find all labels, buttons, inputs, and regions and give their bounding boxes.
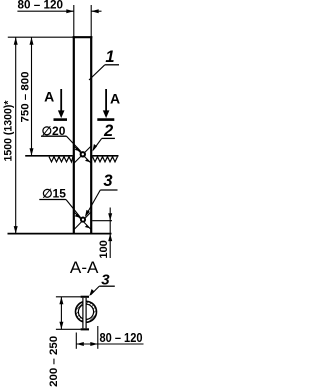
dimension 100: line [109,208,111,259]
label 2: shelf [102,137,115,139]
svg-text:3: 3 [103,172,112,190]
section: inner circle [78,304,93,319]
dimension 200-250: line [60,297,62,330]
extension line: top edge to the left [8,36,73,38]
section: outer circle (post) [76,301,97,322]
bolt item 3: nut bar [81,328,89,330]
post item 1: top edge [73,36,93,38]
label 2: leader arrowhead [93,144,98,151]
hole d20: cross diagonal 1 [74,146,91,163]
dimension 80-120 (top): dimension line right tail [91,10,101,12]
post item 1: right wall [90,36,92,233]
dimension 80-120 (bottom): dimension line [76,343,143,345]
dimension 1500 (1300)*: top arrowhead [14,37,18,45]
svg-text:750 – 800: 750 – 800 [20,72,32,123]
hole d20: diagonal end arrowhead [85,159,90,162]
extension line from d15 hole centre [92,220,112,222]
svg-text:200 – 250: 200 – 250 [48,336,60,387]
dimension 80-120 (bottom): right arrowhead [90,342,98,346]
svg-text:2: 2 [103,122,113,140]
label d15: leader [66,200,81,218]
ground level: right surface line [92,155,118,157]
section mark A (right): stem [105,89,107,112]
svg-text:1: 1 [105,48,114,66]
dimension 750-800: top arrowhead [30,37,34,45]
label 1: shelf [105,64,119,66]
svg-text:A: A [110,90,120,106]
dimension 200-250: top extension line [56,296,81,298]
svg-text:100: 100 [98,240,110,259]
dimension 80-120 (top): dimension line left segment [17,10,73,12]
dimension 80-120 (top): left arrowhead [66,9,74,13]
section mark A (left): trace bar [54,118,68,121]
hole d15: circle [81,218,85,222]
ground hatch left [49,157,73,162]
svg-text:∅20: ∅20 [42,124,66,138]
extension line: left wall above post [73,5,75,37]
label 3 (front): leader [86,190,101,216]
section mark A (left): stem [60,89,62,112]
dimension 200-250: top arrowhead [59,297,63,305]
bolt item 3: shank left line [82,298,84,329]
section mark A (right): trace bar [97,118,114,121]
dimension 80-120 (bottom): left arrowhead [76,342,84,346]
label 1: leader diagonal [89,65,105,80]
dimension 80-120 (bottom): right extension line [97,326,99,349]
ground level: left surface line [25,155,73,157]
svg-text:80 – 120: 80 – 120 [100,331,143,345]
dimension 80-120 (top): right arrowhead [91,9,99,13]
label 3 (section): leader arrowhead [89,289,94,296]
dimension 80-120 (bottom): left extension line [75,333,77,349]
svg-text:80 – 120: 80 – 120 [18,0,64,12]
svg-text:A: A [44,88,54,104]
section mark A (left): arrowhead [58,110,65,118]
extension line: right wall above post [90,5,92,37]
label 3 (front): shelf [100,189,117,191]
ground hatch right [93,157,118,162]
hole d15: cross diagonal 2 [74,212,91,229]
bolt item 3: shank right line [85,298,87,329]
dimension 750-800: bottom arrowhead [30,148,34,156]
label d20: leader arrowhead [75,147,82,152]
hole d15: diagonal end arrowhead [85,225,90,228]
dimension 1500 (1300)*: line [15,37,17,233]
hole d15: cross diagonal 1 [74,212,91,229]
dimension 100: upper arrowhead (points down) [108,213,112,221]
svg-text:A-A: A-A [70,259,99,277]
label d15: leader arrowhead [75,214,82,219]
label d15: shelf [39,199,66,201]
svg-text:∅15: ∅15 [42,186,66,200]
hole d20: cross diagonal 2 [74,146,91,163]
label 3 (section): shelf [99,285,115,287]
label 2: leader [93,138,102,150]
bolt item 3: head bar [81,296,89,298]
dimension 200-250: bottom arrowhead [59,322,63,330]
dimension 100: lower arrowhead (points up) [108,234,112,242]
bolt item 3: white body over hatch [84,298,86,329]
hole d20: circle [81,152,85,156]
label 3 (section): leader [91,286,100,295]
label d20: leader [67,136,82,151]
dimension 1500 (1300)*: bottom arrowhead [14,226,18,234]
post bottom edge / bottom extension line [8,233,112,235]
section: annulus hatch [76,301,97,322]
dimension 750-800: line [31,37,33,156]
dimension 200-250: bottom extension line [56,328,81,330]
section mark A (right): arrowhead [103,110,110,118]
label d20: shelf [41,135,67,137]
label 3 (front): leader arrowhead [85,210,90,217]
svg-text:1500 (1300)*: 1500 (1300)* [3,100,15,162]
svg-text:3: 3 [101,272,110,289]
post item 1: left wall [73,36,75,233]
